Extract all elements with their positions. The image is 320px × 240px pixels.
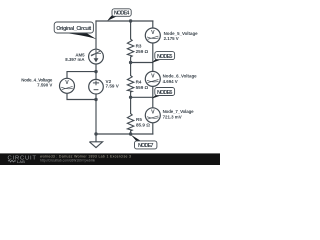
footer CircuitLab logo [8,155,37,163]
voltmeter Node_7_Volage [145,108,160,123]
junction node F (NODE6/R4 bottom) [129,96,132,99]
resistor R4 [127,76,133,93]
node label NODE4 [107,9,131,21]
wire NODE5 horizontal [131,62,153,64]
voltmeter Node_5_Voltage [145,28,160,43]
junction node D (ground/NODE7) [94,132,97,135]
resistor R3 [127,39,133,57]
footer logo zigzag [8,160,16,162]
svg-text:7.590 V: 7.590 V [37,82,52,87]
wire VM5 bottom to VM6 top [152,43,154,71]
wire AM5 bottom to V2 top [95,64,97,79]
svg-text:V: V [151,110,155,116]
svg-text:85.9 Ω: 85.9 Ω [136,122,150,127]
wire VM6 bottom to VM7 top [152,86,154,108]
node label NODE7 [130,134,157,149]
wire V2 bottom to NODE7 [95,100,97,135]
svg-text:NODE6: NODE6 [157,90,173,96]
svg-text:8.397 mA: 8.397 mA [65,57,85,62]
wire R4 bottom to NODE6 [130,92,132,97]
svg-text:R3: R3 [136,44,142,49]
wire NODE4 horizontal [96,20,153,22]
node label NODE6 [152,88,175,99]
voltmeter Node_6_Voltage [145,71,160,86]
wire NODE6 to R5 top [130,97,132,113]
wire NODE5 to R4 top [130,63,132,76]
svg-text:LAB: LAB [17,160,25,164]
resistor R5 [127,114,133,132]
wire R5 bottom to NODE7 [130,131,132,134]
footer bar [0,153,220,165]
ground [89,142,102,148]
svg-text:R4: R4 [136,80,142,85]
svg-text:V: V [65,80,69,86]
svg-text:259 Ω: 259 Ω [136,49,149,54]
svg-text:http://circuitlab.com/c6W169/?: http://circuitlab.com/c6W169/?pwbmk [40,158,95,162]
svg-text:559 Ω: 559 Ω [136,85,149,90]
junction node C (V2 bottom link) [94,98,97,101]
junction node G (NODE7/R5 bottom) [129,132,132,135]
svg-text:Node_6_Voltage: Node_6_Voltage [163,73,198,78]
wire R3 bottom to NODE5 [130,57,132,63]
wire VM7 bottom to NODE7 [152,123,154,134]
wire R3 branch from NODE4 [130,21,132,39]
ammeter AM5 [89,49,104,64]
svg-text:V: V [151,73,155,79]
svg-text:4.694 V: 4.694 V [163,79,178,84]
junction node E (NODE5/R3 bottom) [129,61,132,64]
node label NODE5 [152,52,175,63]
svg-text:Node_7_Volage: Node_7_Volage [163,109,195,114]
wire NODE6 horizontal [131,96,153,98]
wire left column top (NODE4 to AM5) [95,21,97,49]
svg-text:NODE7: NODE7 [138,143,154,149]
svg-text:7.59 V: 7.59 V [106,84,120,89]
junction node A (NODE4/R3) [129,19,132,22]
wire NODE7 horizontal [96,133,153,135]
svg-text:V: V [151,30,155,36]
ground stub [95,134,97,142]
svg-text:NODE5: NODE5 [157,54,173,60]
junction node B (VM4 top link) [94,70,97,73]
wire VM4 top link [67,72,96,79]
svg-text:2.175 V: 2.175 V [164,36,179,41]
wire VM4 bottom link [67,93,96,99]
svg-text:721.3 mV: 721.3 mV [163,115,182,120]
voltage source V2 [89,79,104,94]
svg-text:Original_Circuit: Original_Circuit [56,26,91,32]
svg-text:NODE4: NODE4 [114,11,130,17]
voltmeter Node_4_Voltage [60,78,75,93]
svg-text:R5: R5 [136,117,142,122]
wire right column NODE4 corner to VM5 [152,21,154,28]
node label Original_Circuit [54,22,96,39]
